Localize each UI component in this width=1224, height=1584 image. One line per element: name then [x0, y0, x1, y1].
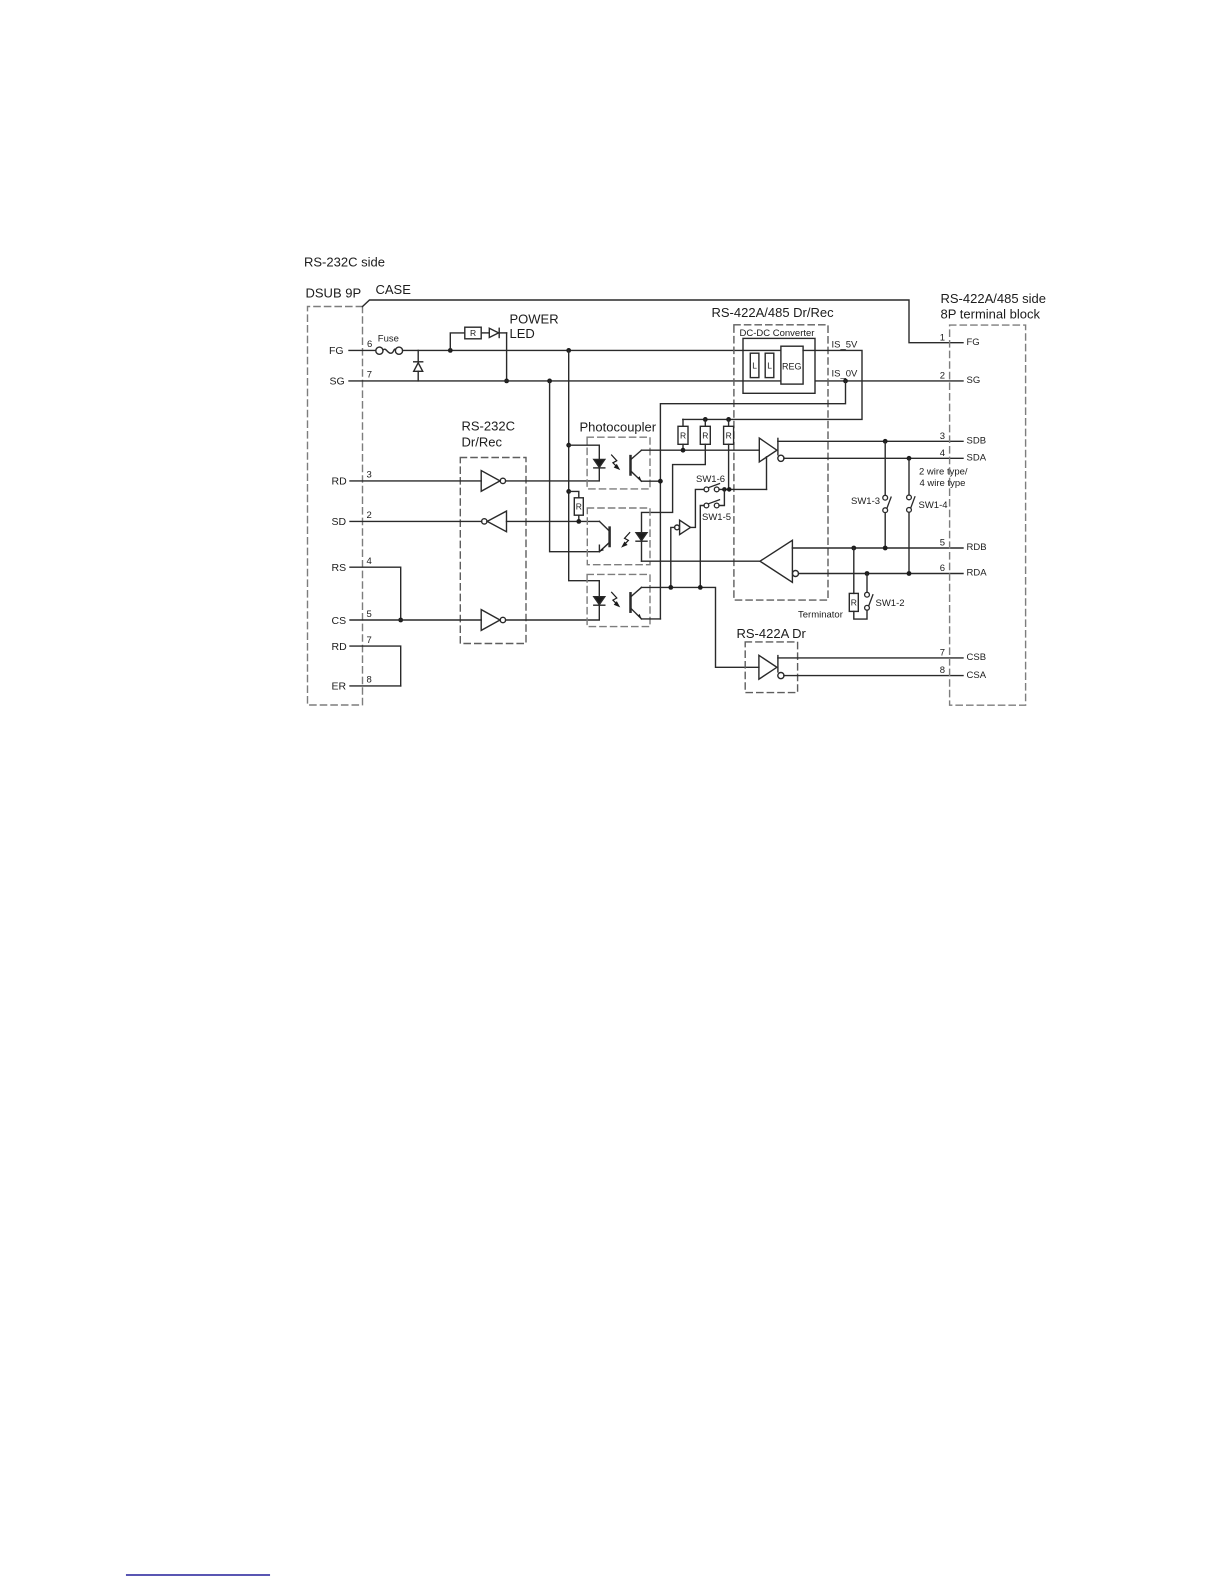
svg-text:RD: RD: [332, 641, 348, 653]
terminal CSA: [967, 670, 987, 681]
wire CSB to terminal 7: [778, 657, 963, 659]
inverter U1B (SD, pointing left): [482, 511, 507, 532]
svg-text:RS-232C: RS-232C: [462, 419, 515, 434]
svg-text:R: R: [470, 328, 476, 338]
svg-text:R: R: [851, 597, 857, 607]
svg-text:SDB: SDB: [967, 436, 987, 447]
svg-text:RS: RS: [332, 562, 347, 574]
label RD (DSUB pin 3): [332, 476, 348, 488]
svg-text:CSA: CSA: [967, 670, 987, 681]
wire SDA to terminal 4: [784, 457, 963, 459]
buffer U1A (RD): [481, 471, 505, 492]
terminal CSB: [967, 652, 987, 663]
node SW1-4/RDA: [907, 571, 912, 576]
svg-text:R: R: [726, 430, 732, 440]
node rail/R3 top: [726, 417, 731, 422]
pin 2: [367, 510, 372, 521]
pin 4: [367, 556, 372, 567]
svg-text:CASE: CASE: [376, 282, 412, 297]
label SG (DSUB pin): [330, 376, 345, 388]
label Photocoupler: [580, 419, 657, 434]
regulator REG box: [781, 346, 803, 384]
svg-text:DC-DC Converter: DC-DC Converter: [740, 328, 815, 339]
svg-text:2 wire type/: 2 wire type/: [919, 466, 968, 477]
driver U5 RS-422A Dr (CSB/CSA): [759, 655, 784, 679]
diode PC3 LED: [594, 597, 605, 606]
svg-text:IS_5V: IS_5V: [832, 340, 859, 351]
wire inverter input from collector line: [671, 527, 675, 587]
node inverter input junction: [668, 585, 673, 590]
terminal FG: [967, 337, 980, 348]
svg-text:SW1-5: SW1-5: [702, 512, 731, 523]
block RS-232C Dr/Rec dashed box: [460, 458, 526, 644]
label FG (DSUB pin): [329, 345, 344, 357]
label CASE: [376, 282, 412, 297]
node IS_0V tap on SG: [843, 379, 848, 384]
node PC1 emitter junction: [658, 479, 663, 484]
wire driver enable from SW1-6: [766, 457, 768, 490]
wire RD7 looped to ER: [350, 646, 401, 686]
photocoupler PC2 dashed box: [587, 508, 650, 565]
wire FG from DSUB to fuse: [349, 349, 376, 351]
svg-text:3: 3: [367, 470, 372, 481]
label RS-232C Dr/Rec: [462, 419, 515, 450]
svg-text:Dr/Rec: Dr/Rec: [462, 434, 503, 449]
label RS-422A Dr: [737, 626, 807, 641]
label SW1-3: [851, 496, 880, 507]
terminal RDB: [967, 542, 987, 553]
wire CSA to terminal 8: [784, 675, 963, 677]
wire receiver output to PC2 LED cathode: [642, 560, 761, 562]
label RS (DSUB pin 4): [332, 562, 347, 574]
inductor L2: [765, 353, 774, 377]
light arrow PC2 (mirrored): [622, 533, 629, 547]
svg-text:CSB: CSB: [967, 652, 987, 663]
label POWER LED: [510, 312, 559, 341]
svg-text:8: 8: [940, 665, 945, 676]
label ER (DSUB pin 8): [332, 681, 347, 693]
label SW1-5: [702, 512, 731, 523]
pin 8: [367, 675, 372, 686]
inverter U2 (enable logic): [675, 520, 691, 534]
svg-text:RS-422A Dr: RS-422A Dr: [737, 626, 807, 641]
svg-text:6: 6: [367, 339, 372, 350]
node PC1 anode tap: [566, 443, 571, 448]
svg-text:SW1-2: SW1-2: [876, 598, 905, 609]
wire SD inverter input from photocoupler 2: [507, 520, 600, 522]
wire PC3 collector line to RS-422A Dr input: [642, 587, 759, 667]
svg-text:SDA: SDA: [967, 453, 987, 464]
wire IS_5V from REG to rail corner: [683, 350, 862, 419]
switch SW1-2: [865, 574, 873, 611]
wire SW1-6 output: [719, 488, 766, 490]
transistor PC3 phototransistor: [631, 587, 642, 619]
svg-text:SW1-6: SW1-6: [696, 474, 725, 485]
node RDB/terminator: [851, 546, 856, 551]
label SD (DSUB pin 2): [332, 516, 347, 528]
receiver U4 RS-422 (RDB/RDA): [760, 540, 799, 582]
wire SD from inverter bubble to DSUB: [350, 520, 482, 522]
wire SDB to terminal 3: [778, 440, 963, 442]
label SW1-2: [876, 598, 905, 609]
connector DSUB 9P dashed box: [308, 307, 363, 706]
connector 8P terminal block dashed box: [950, 325, 1026, 705]
pin 1: [940, 332, 945, 343]
pin 7: [367, 370, 372, 381]
svg-text:7: 7: [940, 648, 945, 659]
svg-text:7: 7: [367, 370, 372, 381]
light arrow PC1: [612, 455, 619, 469]
block RS-422A Dr dashed box: [745, 642, 797, 693]
svg-text:R: R: [680, 430, 686, 440]
wire PC1 collector to driver input: [642, 449, 760, 451]
node R1 bottom on collector line: [681, 448, 686, 453]
node RDA/SW1-2: [865, 571, 870, 576]
node SG / power LED return: [504, 379, 509, 384]
node SDA/SW1-4: [907, 456, 912, 461]
wire inverter output to SW1-6: [691, 489, 705, 527]
svg-text:RS-422A/485 Dr/Rec: RS-422A/485 Dr/Rec: [712, 305, 835, 320]
block RS-422A/485 Dr/Rec dashed box: [734, 325, 828, 600]
label Fuse: [378, 334, 399, 345]
svg-text:4 wire type: 4 wire type: [920, 478, 966, 489]
svg-text:RS-232C side: RS-232C side: [304, 255, 385, 270]
node RS-CS junction: [398, 618, 403, 623]
wire RS looped to CS: [350, 567, 401, 620]
wire SG from REG to terminal (already drawn) / IS_0V label: [832, 368, 859, 379]
label REG: [782, 362, 802, 372]
photocoupler PC3 dashed box: [587, 574, 650, 626]
svg-text:5: 5: [940, 538, 945, 549]
resistor R (PC2 base pullup): [569, 491, 584, 521]
resistor R3 (pullup): [724, 419, 734, 489]
wire RD buffer output to photocoupler 1 LED cathode: [506, 468, 600, 481]
wire FG rail drop (to photocoupler anodes): [569, 350, 600, 596]
wire power LED branch: [450, 333, 465, 351]
svg-text:Terminator: Terminator: [798, 610, 843, 621]
label DSUB 9P: [306, 286, 362, 301]
photocoupler PC1 dashed box: [587, 437, 650, 489]
svg-text:ER: ER: [332, 681, 347, 693]
wire CS to buffer: [350, 619, 481, 621]
terminal SDB: [967, 436, 987, 447]
svg-text:8: 8: [367, 675, 372, 686]
svg-text:Photocoupler: Photocoupler: [580, 419, 657, 434]
label RD (DSUB pin 7): [332, 641, 348, 653]
svg-text:SG: SG: [330, 376, 345, 388]
diode PC1 LED: [594, 459, 605, 468]
wire IS_0V return drop: [660, 381, 845, 619]
label RS-422A/485 Dr/Rec: [712, 305, 835, 320]
svg-text:L: L: [767, 360, 772, 370]
svg-text:FG: FG: [967, 337, 980, 348]
svg-text:R: R: [702, 430, 708, 440]
transistor PC2 phototransistor (mirrored): [599, 521, 609, 551]
node SW1-3/RDB: [883, 546, 888, 551]
svg-text:5: 5: [367, 609, 372, 620]
terminal SG: [967, 375, 981, 386]
resistor R2 (pullup): [642, 419, 711, 532]
svg-text:SW1-3: SW1-3: [851, 496, 880, 507]
svg-text:7: 7: [367, 635, 372, 646]
node SDB/SW1-3: [883, 439, 888, 444]
resistor R1 (pullup): [678, 419, 688, 450]
label DC-DC Converter: [740, 328, 815, 339]
node SW1-6/SW1-5 link: [722, 487, 727, 492]
svg-text:RD: RD: [332, 476, 348, 488]
title RS-232C side: [304, 255, 385, 270]
svg-text:SG: SG: [967, 375, 981, 386]
wire PC3 emitter to IS_0V: [642, 618, 661, 620]
switch SW1-3: [883, 441, 891, 548]
wire CS buffer output to photocoupler 3 LED cathode: [506, 605, 600, 620]
wire SW1-5 to collector line: [700, 506, 704, 588]
svg-text:SD: SD: [332, 516, 347, 528]
label L1: [752, 360, 757, 370]
pin 6: [940, 563, 945, 574]
label R (PC2 pullup): [576, 501, 582, 511]
pin 5: [367, 609, 372, 620]
zener diode D1 across FG-SG: [414, 350, 423, 381]
wire FG from fuse to DC-DC converter: [403, 349, 743, 351]
diode PC2 LED: [636, 533, 647, 562]
pin 3: [367, 470, 372, 481]
label RS-422A/485 side / 8P terminal block: [941, 291, 1047, 322]
svg-text:2: 2: [367, 510, 372, 521]
label L2: [767, 360, 772, 370]
pin 6: [367, 339, 372, 350]
pin 7: [940, 648, 945, 659]
wire RD to buffer: [350, 480, 481, 482]
svg-text:4: 4: [940, 448, 945, 459]
svg-text:REG: REG: [782, 362, 802, 372]
wire SG from DSUB to terminal 2: [349, 380, 963, 382]
pin 8: [940, 665, 945, 676]
pin 4: [940, 448, 945, 459]
svg-text:1: 1: [940, 332, 945, 343]
node SW1-6/R3: [727, 487, 732, 492]
pin 2: [940, 371, 945, 382]
label SW1-4: [919, 500, 948, 511]
wire link down to SW1-5: [719, 489, 724, 505]
label R (power LED resistor): [470, 328, 476, 338]
switch SW1-6: [704, 484, 720, 492]
svg-text:3: 3: [940, 431, 945, 442]
power LED diode: [481, 328, 506, 381]
inductor L1: [750, 353, 759, 377]
svg-text:6: 6: [940, 563, 945, 574]
block DC-DC Converter box: [743, 338, 815, 393]
label R3: [726, 430, 732, 440]
switch SW1-5: [704, 500, 720, 508]
svg-text:POWER: POWER: [510, 312, 559, 327]
label CS (DSUB pin 5): [332, 615, 347, 627]
label R2: [702, 430, 708, 440]
node FG / power-led tap: [448, 348, 453, 353]
node FG rail drop tap: [566, 348, 571, 353]
fuse F1: [376, 347, 403, 354]
node rail/R tap: [566, 489, 571, 494]
wire FG inside DC-DC: [743, 349, 781, 351]
svg-text:RDB: RDB: [967, 542, 987, 553]
node SG return tap: [547, 379, 552, 384]
wire RDA to terminal 6: [799, 573, 964, 575]
svg-text:LED: LED: [510, 326, 535, 341]
buffer U1C (CS): [481, 610, 505, 631]
wire PC1 LED anode: [569, 445, 600, 459]
svg-text:RDA: RDA: [967, 568, 988, 579]
wire SG return to photocoupler 2 emitter: [550, 381, 600, 552]
svg-text:8P terminal block: 8P terminal block: [941, 306, 1041, 321]
case outline / FG wire to terminal 1: [363, 300, 964, 343]
terminal SDA: [967, 453, 987, 464]
wire ER to loop: [350, 685, 401, 687]
node R bottom on SD line: [576, 519, 581, 524]
svg-text:DSUB 9P: DSUB 9P: [306, 286, 362, 301]
label R1: [680, 430, 686, 440]
svg-text:R: R: [576, 501, 582, 511]
svg-text:SW1-4: SW1-4: [919, 500, 948, 511]
svg-text:L: L: [752, 360, 757, 370]
pin 3: [940, 431, 945, 442]
svg-text:FG: FG: [329, 345, 344, 357]
wire SG inside DC-DC: [743, 380, 781, 382]
svg-text:IS_0V: IS_0V: [832, 368, 859, 379]
pin 7 second: [367, 635, 372, 646]
wire PC1 emitter to IS_0V: [642, 480, 661, 482]
label IS_5V: [832, 340, 859, 351]
svg-text:CS: CS: [332, 615, 347, 627]
light arrow PC3: [612, 592, 619, 606]
svg-text:4: 4: [367, 556, 372, 567]
label SW1-6: [696, 474, 725, 485]
svg-text:2: 2: [940, 371, 945, 382]
label 2 wire type / 4 wire type: [919, 466, 968, 489]
resistor R (power LED): [465, 327, 481, 339]
label R terminator: [851, 597, 857, 607]
resistor R terminator: [849, 548, 867, 619]
footer rule (blue): [127, 1574, 270, 1576]
node SW1-5 junction on collector line: [698, 585, 703, 590]
transistor PC1 phototransistor: [631, 450, 642, 481]
driver U3 RS-422 (SDB/SDA): [759, 438, 784, 462]
label Terminator: [798, 610, 843, 621]
node rail/R2 top: [703, 417, 708, 422]
svg-text:RS-422A/485 side: RS-422A/485 side: [941, 291, 1047, 306]
terminal RDA: [967, 568, 988, 579]
svg-text:Fuse: Fuse: [378, 334, 399, 345]
pin 5: [940, 538, 945, 549]
switch SW1-4: [907, 458, 915, 573]
wire RDB to terminal 5: [792, 547, 963, 549]
